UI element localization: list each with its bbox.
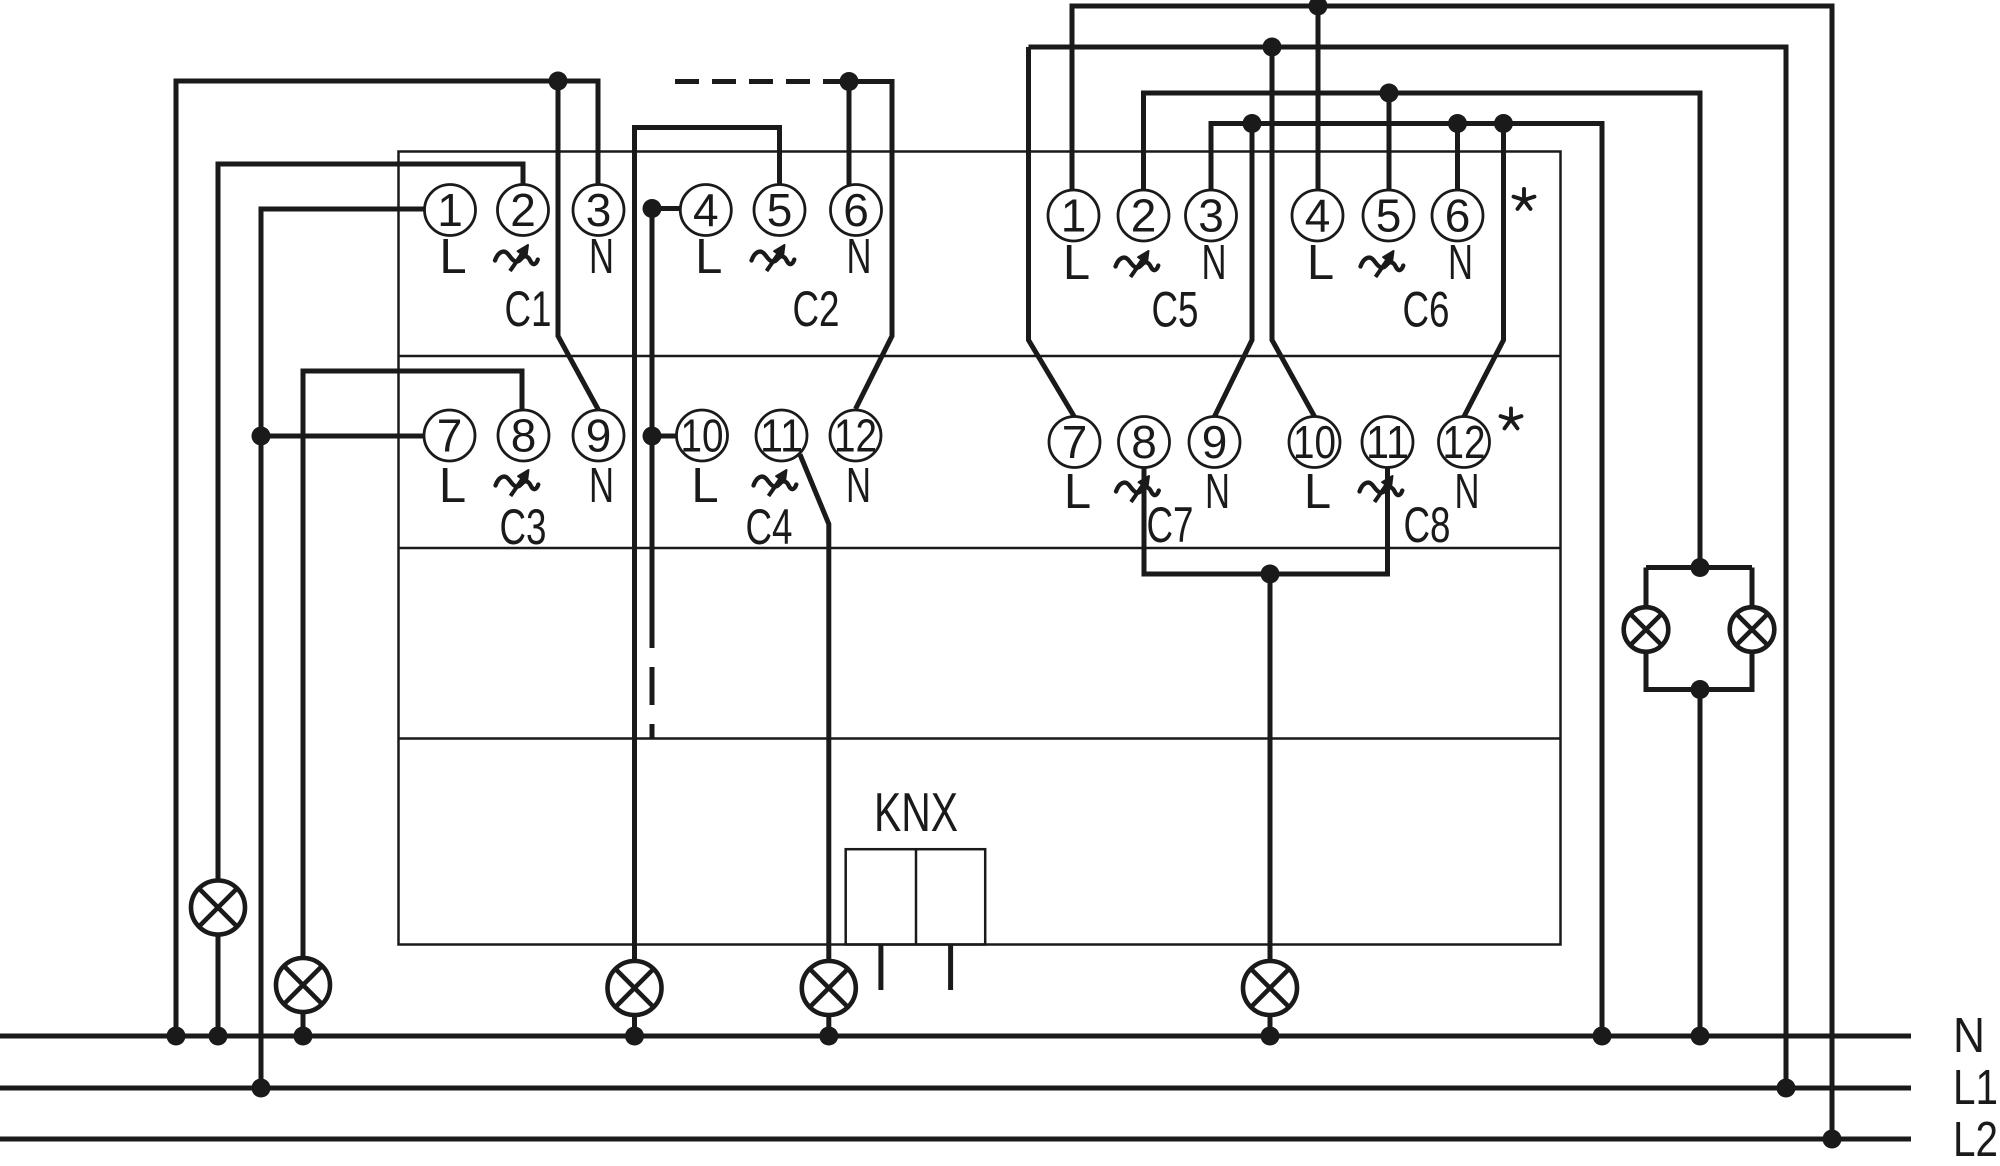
svg-text:1: 1 — [437, 184, 463, 236]
svg-text:4: 4 — [1305, 190, 1331, 242]
svg-text:KNX: KNX — [874, 781, 958, 843]
svg-text:2: 2 — [1131, 190, 1157, 242]
svg-text:1: 1 — [1061, 190, 1087, 242]
svg-text:2: 2 — [510, 184, 536, 236]
svg-text:C6: C6 — [1403, 282, 1450, 338]
svg-text:10: 10 — [681, 410, 724, 462]
svg-text:N: N — [1455, 465, 1480, 519]
svg-text:12: 12 — [834, 410, 877, 462]
svg-text:N: N — [1202, 236, 1227, 290]
svg-text:6: 6 — [843, 184, 869, 236]
svg-text:C2: C2 — [793, 281, 840, 337]
svg-text:N: N — [847, 230, 872, 284]
svg-text:9: 9 — [1202, 416, 1228, 468]
svg-text:L: L — [439, 230, 466, 284]
svg-text:8: 8 — [511, 410, 537, 462]
svg-text:7: 7 — [437, 410, 463, 462]
svg-text:N: N — [589, 459, 614, 513]
svg-text:11: 11 — [760, 410, 803, 462]
svg-text:C3: C3 — [500, 499, 547, 555]
svg-text:9: 9 — [586, 410, 612, 462]
svg-text:8: 8 — [1131, 416, 1157, 468]
svg-text:3: 3 — [586, 184, 612, 236]
svg-text:N: N — [1953, 1009, 1985, 1063]
svg-text:5: 5 — [767, 184, 793, 236]
svg-text:C7: C7 — [1147, 497, 1194, 553]
svg-text:C4: C4 — [746, 499, 793, 555]
svg-text:N: N — [846, 459, 871, 513]
svg-text:L: L — [1307, 236, 1334, 290]
svg-text:N: N — [589, 230, 614, 284]
svg-text:L2: L2 — [1953, 1113, 1998, 1166]
svg-text:N: N — [1205, 465, 1230, 519]
svg-text:N: N — [1448, 236, 1473, 290]
svg-text:L: L — [1064, 465, 1091, 519]
svg-text:L: L — [695, 230, 722, 284]
svg-text:12: 12 — [1443, 416, 1486, 468]
svg-text:L1: L1 — [1953, 1061, 1998, 1115]
svg-text:6: 6 — [1445, 190, 1471, 242]
svg-text:L: L — [1063, 236, 1090, 290]
svg-text:5: 5 — [1376, 190, 1402, 242]
svg-text:7: 7 — [1062, 416, 1088, 468]
svg-text:11: 11 — [1366, 416, 1409, 468]
svg-text:4: 4 — [693, 184, 719, 236]
svg-text:L: L — [1304, 465, 1331, 519]
svg-text:10: 10 — [1293, 416, 1336, 468]
svg-text:3: 3 — [1198, 190, 1224, 242]
svg-text:C8: C8 — [1404, 497, 1451, 553]
svg-text:C1: C1 — [505, 281, 552, 337]
svg-text:L: L — [439, 459, 466, 513]
svg-text:L: L — [691, 459, 718, 513]
svg-text:C5: C5 — [1152, 282, 1199, 338]
